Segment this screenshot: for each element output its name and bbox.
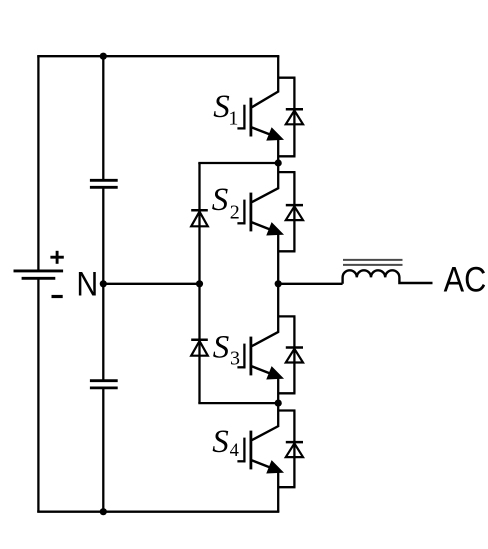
svg-text:3: 3 <box>230 347 240 369</box>
node N junction <box>100 280 107 287</box>
svg-text:S: S <box>213 89 230 125</box>
wire: DC-link rail between N and C2 <box>102 284 104 381</box>
diode D2 top connection wire <box>278 171 295 173</box>
diode D4 top connection wire <box>278 409 295 411</box>
transistor S1 emitter diagonal <box>252 127 276 136</box>
diode D2 bottom connection wire <box>278 250 295 252</box>
transistor S2 collector diagonal <box>252 188 279 202</box>
transistor S4 main bar <box>249 431 252 470</box>
transistor S2 emitter diagonal <box>252 222 276 231</box>
diode D1 bottom connection wire <box>278 155 295 157</box>
diode D3 bottom connection wire <box>278 392 295 394</box>
diode D3 top connection wire <box>278 315 295 317</box>
node: S3/S4 junction <box>275 400 282 407</box>
transistor S1 gate bar <box>243 105 245 130</box>
diode D1 symbol <box>286 108 303 111</box>
svg-text:S: S <box>213 330 230 366</box>
svg-text:AC: AC <box>444 260 487 300</box>
transistor S1 gate lead <box>237 127 245 129</box>
node: top rail junction <box>100 53 107 60</box>
transistor S3 emitter diagonal <box>252 366 276 375</box>
diode D3 branch wire <box>293 316 295 393</box>
transistor S2 gate lead <box>237 222 245 224</box>
svg-text:S: S <box>212 424 229 460</box>
wire: DC-link rail top segment <box>102 56 104 180</box>
svg-text:S: S <box>212 182 229 218</box>
transistor S4 emitter diagonal <box>252 460 276 469</box>
diode D5 (upper clamp) <box>191 209 208 212</box>
transistor S1 collector diagonal <box>252 91 279 107</box>
transistor S3 gate lead <box>237 366 245 368</box>
wire: neutral point to clamp branch <box>103 283 199 285</box>
transistor S4 gate bar <box>243 438 245 463</box>
transistor S4 collector diagonal <box>252 426 279 440</box>
transistor S4 collector wire <box>277 403 279 427</box>
transistor S2 collector wire <box>277 163 279 190</box>
wire: DC-link rail between C1 and N <box>102 187 104 283</box>
diode D4 bottom connection wire <box>278 486 295 488</box>
transistor S1 main bar <box>249 98 252 137</box>
transistor S3 emitter arrow <box>267 367 283 379</box>
svg-text:1: 1 <box>228 108 238 130</box>
diode D6 (lower clamp) <box>191 338 208 341</box>
wire: lower clamp branch vertical <box>198 284 200 403</box>
battery V1 plus sign <box>50 256 63 259</box>
transistor S3 main bar <box>249 337 252 376</box>
transistor S2 gate bar <box>243 200 245 225</box>
diode D4 branch wire <box>293 411 295 488</box>
capacitor C2 top plate <box>90 379 118 382</box>
wire: clamp branch top horizontal <box>198 162 278 164</box>
transistor S1 collector wire <box>277 56 279 93</box>
transistor S2 emitter wire <box>277 231 279 284</box>
transistor S4 emitter wire <box>277 469 279 512</box>
wire: AC output from S2/S3 midpoint <box>278 283 342 285</box>
battery V1 minus sign <box>52 295 63 298</box>
inductor L1 core line lower <box>343 264 403 266</box>
node: bottom rail junction <box>100 508 107 515</box>
diode D3 symbol <box>286 346 303 349</box>
battery V1 positive plate <box>14 269 64 272</box>
transistor S3 gate bar <box>243 344 245 369</box>
node: clamp midpoint junction <box>196 280 203 287</box>
svg-text:N: N <box>76 265 98 303</box>
diode D1 top connection wire <box>278 77 295 79</box>
diode D2 branch wire <box>293 172 295 251</box>
diode D2 symbol <box>286 204 303 207</box>
wire: top DC rail <box>37 55 279 57</box>
transistor S2 main bar <box>249 193 252 232</box>
wire: upper clamp branch vertical <box>198 163 200 284</box>
capacitor C1 bottom plate <box>90 186 118 189</box>
wire: left rail upper (battery positive lead) <box>37 56 39 270</box>
diode D4 symbol <box>286 441 303 444</box>
capacitor C1 top plate <box>90 179 118 182</box>
node: S1/S2 junction <box>275 159 282 166</box>
wire: clamp branch bottom horizontal <box>198 402 278 404</box>
node: AC output junction <box>275 280 282 287</box>
transistor S3 collector diagonal <box>252 332 279 346</box>
svg-text:4: 4 <box>230 441 239 461</box>
battery V1 negative plate <box>22 277 56 280</box>
diode D1 branch wire <box>293 78 295 157</box>
transistor S3 collector wire <box>277 283 279 333</box>
capacitor C2 bottom plate <box>90 386 118 389</box>
transistor S4 emitter arrow <box>267 461 283 473</box>
transistor S3 emitter wire <box>277 375 279 404</box>
inductor L1 core line upper <box>343 259 403 261</box>
wire: DC-link rail bottom segment <box>102 388 104 512</box>
wire: bottom DC rail <box>37 511 279 513</box>
transistor S1 emitter wire <box>277 136 279 164</box>
wire: left rail lower (battery negative lead) <box>37 278 39 511</box>
transistor S1 emitter arrow <box>267 128 283 140</box>
inductor L1 winding <box>343 270 433 284</box>
svg-text:2: 2 <box>230 202 240 224</box>
transistor S2 emitter arrow <box>267 223 283 235</box>
transistor S4 gate lead <box>237 460 245 462</box>
